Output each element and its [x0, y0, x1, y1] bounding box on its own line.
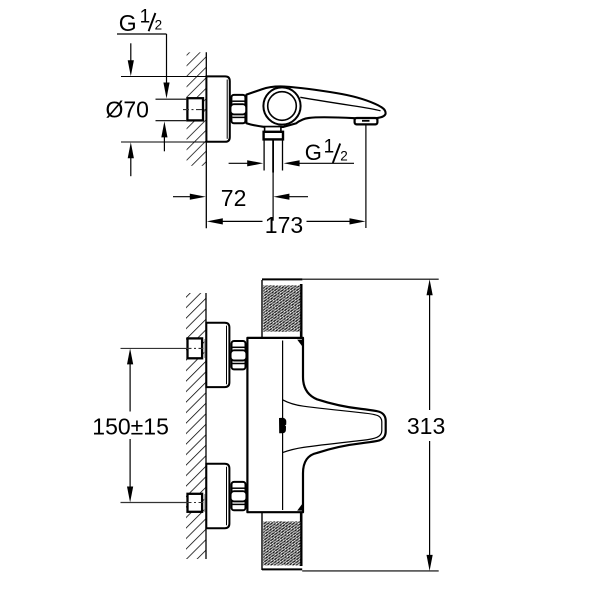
dimension 150±15 between inlet centres: [127, 348, 133, 502]
arrow O70 up to escutcheon bottom line: [128, 142, 134, 176]
lower wall union square: [188, 494, 207, 512]
centreline upper union: [121, 347, 207, 349]
corner shadow wedge top: [297, 340, 303, 348]
thermostat knob (side view, circle): [263, 87, 300, 124]
mixer body (front view) with spout silhouette: [247, 338, 385, 512]
svg-text:173: 173: [265, 212, 303, 238]
wall union square (side view): [183, 98, 206, 120]
mixer body with spout (side view): [246, 86, 385, 126]
dimension 72 : wall to shower pipe centre: [173, 194, 206, 200]
svg-text:1: 1: [140, 7, 151, 28]
hex nut on inlet (side view): [231, 95, 247, 123]
svg-text:G: G: [305, 140, 322, 165]
wall (front view) hatched section: [186, 293, 206, 559]
crease line between cap and spout: [300, 97, 380, 111]
escutcheon flange (side view): [206, 76, 229, 141]
wall (side view) hatched section: [187, 52, 207, 228]
extension line from aerator down: [365, 125, 367, 228]
shower pipe edges: [264, 139, 282, 170]
svg-text:313: 313: [407, 413, 445, 439]
label G 1/2 (wall union thread): [117, 7, 167, 37]
label G 1/2 (shower outlet thread): [305, 137, 348, 166]
inner spout contour: [283, 400, 382, 453]
lower escutcheon flange: [206, 464, 229, 528]
extension line union top (G1/2 upper): [156, 98, 187, 100]
extension line escutcheon bottom (O70 lower): [121, 141, 206, 143]
svg-text:2: 2: [340, 149, 348, 164]
lower supply pipe block (stippled): [262, 512, 302, 570]
arrow O70 down to escutcheon top line: [128, 43, 134, 76]
extension line escutcheon top (O70 upper): [121, 76, 206, 78]
svg-text:G: G: [119, 10, 137, 36]
upper supply pipe block (stippled): [262, 279, 302, 337]
centreline lower union: [121, 502, 207, 504]
svg-text:72: 72: [221, 185, 247, 211]
pipe centre extension line: [272, 140, 274, 221]
lower hex nut: [231, 482, 247, 510]
svg-text:2: 2: [155, 17, 163, 32]
upper hex nut: [231, 341, 247, 369]
arrow left to shower pipe (G1/2): [229, 160, 264, 166]
shower outlet collar: [265, 127, 281, 132]
svg-text:150±15: 150±15: [92, 414, 169, 440]
dimension 313 : overall height: [302, 279, 439, 571]
arrow right to shower pipe (G1/2) with shaft under label: [284, 160, 354, 166]
eco-button / logo mark: [279, 418, 286, 434]
svg-text:Ø70: Ø70: [106, 97, 149, 123]
leader arrow G1/2 down to union top: [163, 34, 169, 99]
upper wall union square: [188, 338, 207, 358]
extension line union bottom (G1/2 lower): [156, 120, 187, 122]
arrow G1/2 up to union bottom: [161, 121, 167, 151]
upper escutcheon flange: [206, 323, 229, 387]
dimension 173 : wall to spout outlet: [207, 212, 366, 238]
svg-text:1: 1: [324, 137, 335, 158]
corner shadow wedge bottom: [297, 503, 303, 511]
inner highlight vertical line: [282, 341, 284, 511]
shower outlet nut: [264, 132, 283, 140]
aerator / spout outlet: [355, 118, 378, 124]
